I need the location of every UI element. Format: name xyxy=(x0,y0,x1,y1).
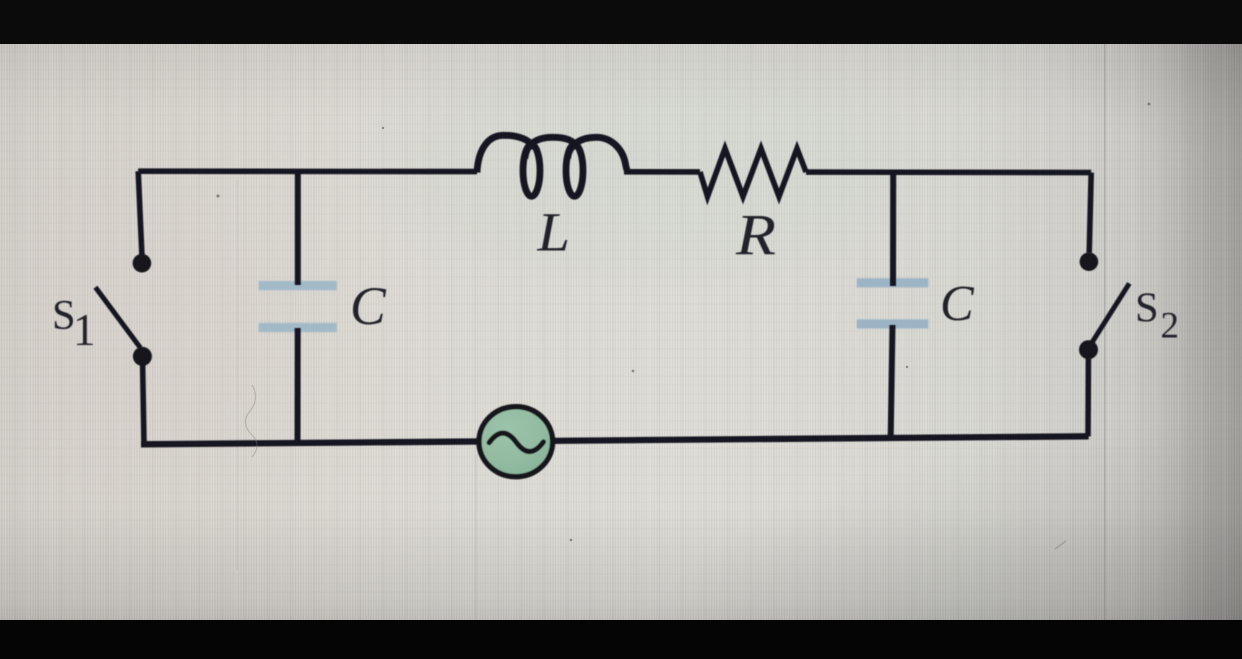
svg-text:1: 1 xyxy=(73,305,96,355)
svg-text:C: C xyxy=(940,276,975,332)
svg-text:S: S xyxy=(1135,285,1159,332)
svg-text:R: R xyxy=(735,203,776,268)
svg-text:2: 2 xyxy=(1161,306,1180,347)
svg-text:L: L xyxy=(536,202,570,263)
svg-text:C: C xyxy=(350,276,387,336)
